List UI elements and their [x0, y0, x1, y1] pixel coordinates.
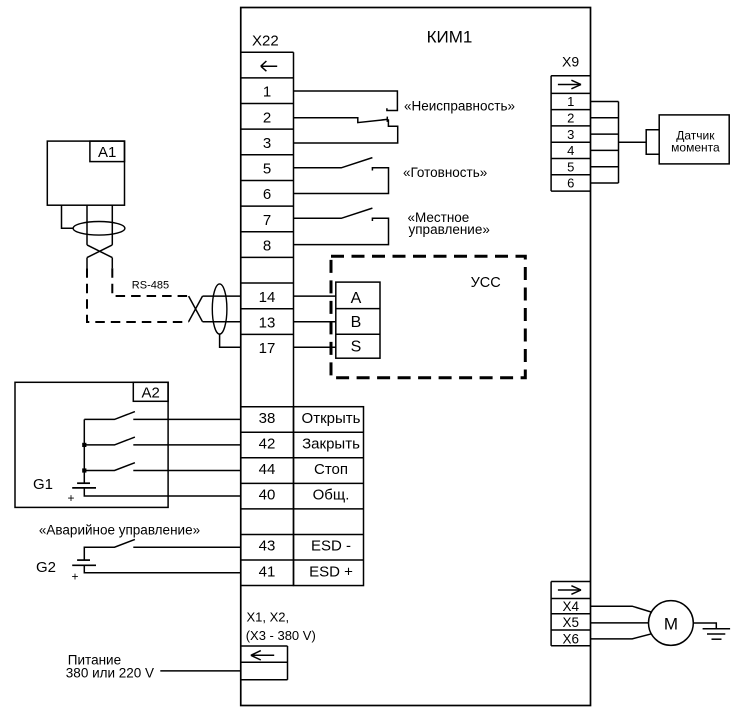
wire to pin 44 — [133, 470, 240, 472]
twist crossing near A1 — [87, 245, 112, 258]
svg-text:X1, X2,: X1, X2, — [247, 610, 290, 625]
svg-text:44: 44 — [259, 461, 276, 478]
svg-text:5: 5 — [263, 161, 271, 178]
svg-text:17: 17 — [259, 340, 276, 357]
svg-text:X6: X6 — [562, 631, 579, 646]
svg-text:3: 3 — [263, 135, 271, 152]
relay contact "Готовность" pins 5-6 — [294, 158, 389, 194]
battery G1 — [77, 482, 90, 484]
svg-text:A1: A1 — [98, 144, 116, 161]
power connector box — [241, 646, 288, 680]
svg-text:Общ.: Общ. — [313, 487, 350, 504]
svg-text:1: 1 — [263, 84, 271, 101]
svg-text:X4: X4 — [562, 599, 579, 614]
battery G2 — [77, 559, 90, 561]
connector X22 terminal strip — [241, 52, 294, 585]
svg-text:момента: момента — [671, 141, 720, 155]
svg-text:М: М — [664, 614, 678, 633]
svg-text:42: 42 — [259, 436, 276, 453]
svg-text:38: 38 — [259, 410, 276, 427]
bus from G1 — [83, 419, 85, 483]
X9 pin numbers — [567, 94, 574, 191]
motor M — [649, 601, 694, 646]
svg-text:X5: X5 — [562, 615, 579, 630]
wire to pin 14 — [203, 295, 241, 297]
power input arrow — [251, 651, 274, 660]
svg-text:A: A — [351, 290, 362, 307]
svg-text:41: 41 — [259, 563, 276, 580]
svg-text:6: 6 — [263, 186, 271, 203]
wire power supply — [160, 670, 240, 672]
cable screen ellipse vertical — [212, 284, 227, 334]
svg-text:2: 2 — [263, 109, 271, 126]
wire X4 to motor — [591, 606, 652, 612]
svg-text:RS-485: RS-485 — [132, 280, 169, 292]
control station A1 — [47, 141, 124, 205]
connector X4 X5 X6 strip — [551, 582, 590, 646]
relay contact "Неисправность" pins 1-2-3 — [294, 91, 398, 143]
wire to pin 43 — [133, 546, 240, 548]
cable screen ellipse A1 — [73, 222, 125, 236]
wire X6 to motor — [591, 634, 652, 639]
wire X5 to motor — [591, 622, 649, 624]
wire to pin 40 — [84, 488, 240, 496]
wire to pin 42 — [133, 444, 240, 446]
wire A1 pair left — [86, 205, 88, 245]
ground — [703, 629, 731, 639]
svg-text:13: 13 — [259, 315, 276, 332]
terminal block A B S — [336, 282, 380, 358]
switch Открыть — [84, 412, 135, 420]
svg-text:43: 43 — [259, 538, 276, 555]
X22 pin numbers — [259, 84, 276, 581]
svg-text:«Неисправность»: «Неисправность» — [404, 98, 515, 113]
junction dot 44 — [82, 468, 86, 472]
wire stubs below twist — [86, 258, 88, 269]
svg-text:2: 2 — [567, 111, 574, 126]
svg-text:«Аварийное управление»: «Аварийное управление» — [39, 522, 200, 537]
switch ESD — [84, 539, 135, 560]
wire to pin 13 — [203, 321, 241, 323]
twist crossing near X22 — [189, 296, 203, 322]
wire A1 shield drain — [62, 205, 74, 228]
svg-text:3: 3 — [567, 127, 574, 142]
dashed RS-485 wire upper — [112, 268, 188, 296]
svg-text:X22: X22 — [252, 33, 279, 50]
wire pin 14 to A — [294, 295, 336, 297]
svg-text:X9: X9 — [562, 53, 579, 69]
wire screen to pin 17 — [220, 334, 241, 347]
sensor connector bracket — [646, 130, 659, 155]
X22 input arrow — [261, 61, 277, 71]
junction dot 42 — [82, 443, 86, 447]
X4 output arrow — [558, 586, 581, 595]
wire to pin 38 — [133, 418, 240, 420]
svg-text:6: 6 — [567, 176, 574, 191]
wire pin 17 to S — [294, 346, 336, 348]
svg-text:«Готовность»: «Готовность» — [403, 165, 487, 180]
wire to torque sensor — [619, 141, 647, 143]
svg-text:1: 1 — [567, 94, 574, 109]
switch Стоп — [84, 463, 135, 471]
svg-text:S: S — [351, 339, 362, 356]
svg-text:40: 40 — [259, 487, 276, 504]
svg-text:Закрыть: Закрыть — [302, 436, 360, 453]
X9 output arrow — [558, 80, 581, 89]
switch Закрыть — [84, 437, 135, 445]
svg-text:управление»: управление» — [409, 222, 490, 237]
torque sensor box — [659, 115, 729, 164]
svg-text:УСС: УСС — [471, 275, 501, 291]
svg-text:A2: A2 — [142, 385, 160, 402]
svg-text:8: 8 — [263, 238, 271, 255]
dashed RS-485 wire lower — [87, 268, 189, 322]
svg-text:+: + — [68, 491, 75, 505]
svg-text:G1: G1 — [33, 476, 53, 493]
svg-text:7: 7 — [263, 212, 271, 229]
svg-text:B: B — [351, 314, 362, 331]
X22 function label cells — [294, 407, 364, 586]
svg-text:ESD +: ESD + — [309, 563, 353, 580]
wire motor to ground — [693, 623, 716, 629]
svg-text:G2: G2 — [36, 559, 56, 576]
svg-text:(X3 - 380 V): (X3 - 380 V) — [246, 628, 316, 643]
svg-text:КИМ1: КИМ1 — [427, 28, 473, 47]
svg-text:14: 14 — [259, 289, 276, 306]
labels X4 X5 X6 — [562, 599, 579, 646]
wire to pin 41 — [84, 565, 240, 572]
control station A2 — [15, 382, 168, 507]
relay contact "Местное управление" pins 7-8 — [294, 208, 389, 245]
svg-text:380 или 220 V: 380 или 220 V — [66, 666, 154, 681]
connector X9 strip — [551, 76, 590, 191]
svg-text:ESD -: ESD - — [311, 538, 351, 555]
USS dashed box — [331, 256, 525, 378]
X9 cable comb — [591, 102, 619, 184]
wire A1 pair right — [111, 205, 113, 245]
svg-text:+: + — [72, 570, 79, 584]
svg-text:Открыть: Открыть — [302, 410, 361, 427]
controller box KIM1 — [241, 8, 591, 706]
svg-text:5: 5 — [567, 159, 574, 174]
svg-text:Стоп: Стоп — [314, 461, 348, 478]
wire pin 13 to B — [294, 321, 336, 323]
svg-text:4: 4 — [567, 143, 574, 158]
